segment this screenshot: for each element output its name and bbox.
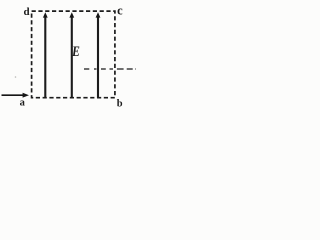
svg-text:E: E bbox=[71, 43, 80, 60]
field line E3 bbox=[96, 12, 101, 97]
horizontal dashed exit line bbox=[84, 68, 136, 70]
faint scan speck bbox=[15, 76, 17, 78]
svg-text:d: d bbox=[24, 6, 30, 18]
background bbox=[0, 0, 136, 117]
entry arrow at a bbox=[2, 93, 30, 98]
svg-text:a: a bbox=[20, 98, 26, 109]
svg-text:c: c bbox=[117, 4, 123, 18]
svg-text:b: b bbox=[117, 98, 123, 109]
field line E2 bbox=[69, 12, 74, 97]
field line E1 bbox=[43, 12, 48, 97]
dashed field-region boundary abcd bbox=[32, 11, 115, 98]
